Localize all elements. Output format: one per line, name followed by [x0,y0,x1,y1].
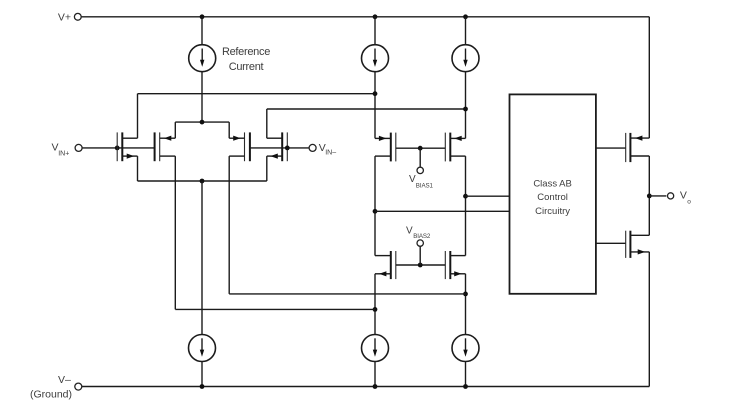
wire current source I2 to cascode M6 source [465,71,467,138]
wire top rail to reference current source [201,17,203,45]
terminal V+ [74,13,81,20]
node M4 gate junction [285,146,290,151]
node top rail / right top current source [463,14,468,19]
svg-text:V–: V– [58,374,71,386]
wire M3/M4 gates to V_IN- terminal [250,147,309,149]
wire current source I3 to V- rail [201,361,203,386]
wire M9 drain down to output node [648,156,650,196]
terminal V_IN+ [75,144,82,151]
current source I4 (bottom middle) [362,335,389,362]
svg-text:IN+: IN+ [58,151,69,158]
svg-text:BIAS2: BIAS2 [413,233,431,240]
node M2 drain / M7 source column [373,307,378,312]
transistor M5 (upper cascode PMOS, left) [375,133,396,162]
svg-text:o: o [687,199,691,206]
wire gate net to V_BIAS1 terminal [419,148,421,167]
transistor M9 (output PMOS) [626,133,650,162]
terminal V_BIAS1 [417,167,423,173]
node right column to class AB box [463,194,468,199]
current source I_REF [189,45,216,72]
wire M1 source down to N-pair tail [137,156,139,181]
terminal V_IN- [309,144,316,151]
wire M3 drain horizontal into right column [229,293,465,295]
wire N-pair tail [138,180,267,182]
wire M7/M8 gate net [396,264,446,266]
wire M6 drain down through right fold column [465,156,467,256]
wire M2 drain down [174,156,176,309]
wire top rail to current source I2 [465,17,467,45]
current source I5 (bottom right) [452,335,479,362]
svg-text:Current: Current [229,61,264,73]
wire class AB box to M9 gate [596,147,626,149]
svg-text:Control: Control [537,192,568,203]
node right fold (line B junction) [463,107,468,112]
node V_BIAS1 gate junction [418,146,423,151]
transistor M3 (input PMOS, V_IN-) [229,132,250,161]
transistor M8 (lower cascode NMOS, right) [445,251,465,279]
wire line B: M4 drain to right fold node [267,108,466,110]
node V_BIAS2 gate junction [418,263,423,268]
wire M5/M6 gate net [396,147,446,149]
current source I2 (top right) [452,45,479,72]
wire V+ rail drop to output PMOS source [648,17,650,138]
wire M3 source up to P-pair tail [228,122,230,138]
wire M10 source down to V- rail [648,252,650,387]
node N-pair tail [200,179,205,184]
wire M4 source down to N-pair tail [266,156,268,181]
wire top rail to current source I1 [374,17,376,45]
wire M7 source down to current source I4 [374,274,376,335]
wire P-pair tail [175,121,229,123]
wire current source I4 to V- rail [374,361,376,386]
wire M1 drain up to line A [137,94,139,139]
transistor M7 (lower cascode NMOS, left) [375,251,396,279]
node M1 gate junction [115,146,120,151]
node output [647,194,652,199]
wire current source I1 to cascode M5 source [374,71,376,138]
transistor M1 (input NMOS, V_IN+) [117,132,137,161]
transistor M10 (output NMOS) [626,231,650,258]
node top rail / left top current source [373,14,378,19]
svg-text:IN–: IN– [325,150,336,157]
wire right column node to class AB box [466,195,510,197]
wire current source I5 to V- rail [465,361,467,386]
node P-pair tail [200,120,205,125]
svg-text:BIAS1: BIAS1 [416,182,434,189]
wire class AB box to M10 gate [596,242,626,244]
wire M5 drain down through left fold column [374,156,376,256]
svg-text:Circuitry: Circuitry [535,206,570,217]
wire M8 source down to current source I5 [465,274,467,335]
wire M2 drain horizontal into left column [175,308,375,310]
svg-text:Class AB: Class AB [533,178,572,189]
terminal V_O [668,193,674,199]
svg-text:V+: V+ [58,12,71,24]
svg-text:(Ground): (Ground) [30,389,72,401]
wire M2 source up to P-pair tail [174,122,176,138]
svg-text:V: V [680,190,687,202]
wire V_BIAS2 terminal to gate net [419,246,421,265]
wire V_IN+ to M1/M2 gates [81,147,154,149]
svg-text:Reference: Reference [222,46,270,58]
terminal V- (Ground) [75,383,82,390]
terminal V_BIAS2 [417,240,423,246]
node V- rail / I4 [373,384,378,389]
node V- rail / I3 [200,384,205,389]
svg-text:V: V [406,226,413,237]
current source I3 (bottom left) [189,335,216,362]
wire left column node to class AB box [375,210,510,212]
transistor M4 (input NMOS, V_IN-) [267,132,288,161]
node left column to class AB box [373,209,378,214]
wire line A: M1 drain to left fold node [138,93,376,95]
wire V+ rail [81,16,649,18]
transistor M2 (input PMOS, V_IN+) [155,132,176,161]
node left fold (line A junction) [373,91,378,96]
wire output node to V_O terminal [649,195,666,197]
wire V- rail [82,386,649,388]
wire M10 drain up to output node [648,196,650,235]
node M3 drain / M8 source column [463,292,468,297]
current source I1 (top left) [362,45,389,72]
wire M4 drain up to line B [266,109,268,138]
transistor M6 (upper cascode PMOS, right) [445,133,465,162]
wire M3 drain down [228,156,230,294]
class AB control circuitry box U1 [510,94,596,293]
node V- rail / I5 [463,384,468,389]
node top rail / reference current [200,14,205,19]
wire N-pair tail down to bottom current source I3 [201,181,203,335]
wire reference current source to P-pair tail [201,71,203,122]
